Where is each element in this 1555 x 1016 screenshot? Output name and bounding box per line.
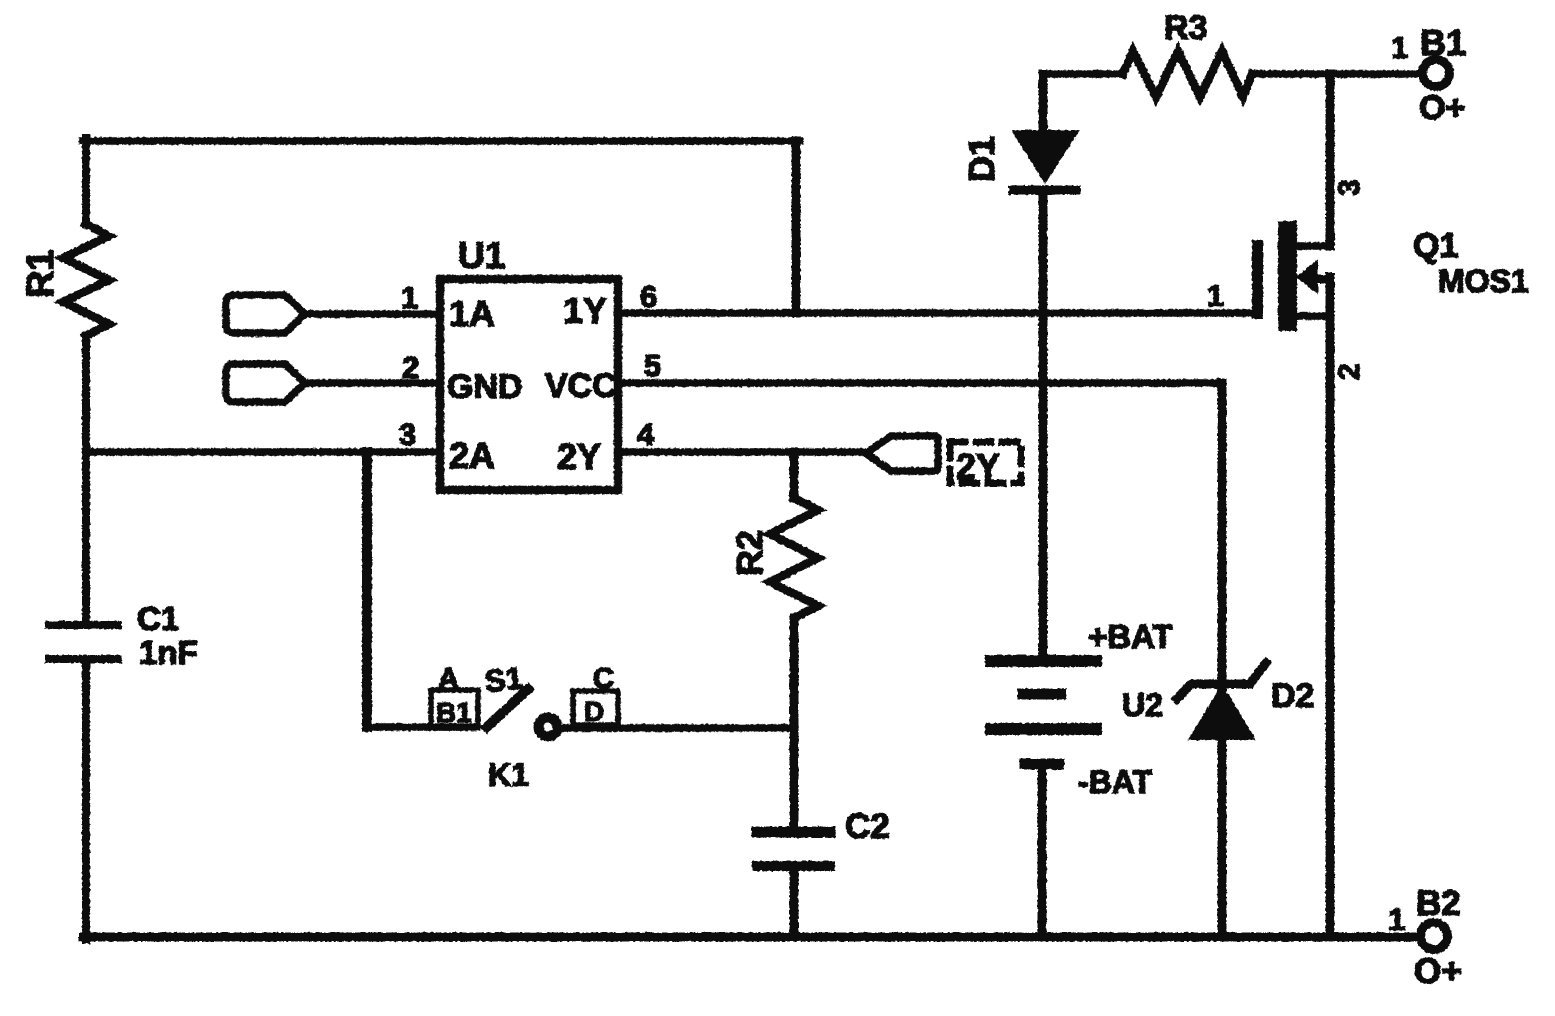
svg-text:O+: O+ (1419, 89, 1465, 127)
svg-text:1A: 1A (449, 293, 495, 334)
svg-text:5: 5 (644, 348, 661, 383)
svg-text:B1: B1 (436, 697, 472, 728)
svg-text:R3: R3 (1164, 9, 1207, 47)
svg-text:2: 2 (1333, 363, 1366, 380)
svg-text:C: C (593, 663, 614, 695)
svg-text:-BAT: -BAT (1078, 764, 1153, 800)
svg-text:2Y: 2Y (557, 436, 601, 477)
svg-text:3: 3 (399, 417, 416, 452)
svg-text:C2: C2 (845, 807, 890, 846)
svg-text:K1: K1 (488, 757, 529, 793)
svg-text:2: 2 (402, 350, 419, 385)
svg-text:D: D (584, 696, 604, 727)
svg-text:A: A (438, 663, 459, 695)
svg-text:2A: 2A (449, 435, 495, 476)
svg-text:D2: D2 (1271, 677, 1314, 715)
svg-text:U2: U2 (1122, 687, 1163, 723)
svg-text:S1: S1 (483, 660, 524, 699)
svg-text:MOS1: MOS1 (1438, 263, 1529, 299)
svg-text:1: 1 (401, 280, 418, 315)
svg-text:1nF: 1nF (139, 634, 198, 671)
svg-text:1: 1 (1207, 280, 1224, 313)
svg-text:GND: GND (447, 368, 523, 406)
svg-text:6: 6 (640, 279, 657, 314)
svg-text:3: 3 (1333, 179, 1366, 196)
svg-text:1Y: 1Y (563, 290, 607, 331)
svg-text:+BAT: +BAT (1088, 618, 1173, 655)
svg-text:B2: B2 (1416, 884, 1461, 923)
svg-text:Q1: Q1 (1413, 227, 1458, 265)
svg-text:D1: D1 (961, 136, 1002, 182)
svg-text:1: 1 (1388, 902, 1405, 937)
svg-text:O+: O+ (1414, 952, 1462, 991)
svg-text:4: 4 (637, 417, 655, 452)
svg-text:R2: R2 (729, 530, 770, 576)
svg-text:VCC: VCC (545, 367, 617, 405)
svg-text:U1: U1 (458, 235, 505, 276)
svg-text:1: 1 (1391, 30, 1408, 65)
svg-text:B1: B1 (1420, 22, 1466, 63)
svg-text:R1: R1 (20, 249, 62, 298)
svg-text:2Y: 2Y (956, 446, 1000, 487)
svg-text:C1: C1 (137, 600, 179, 637)
